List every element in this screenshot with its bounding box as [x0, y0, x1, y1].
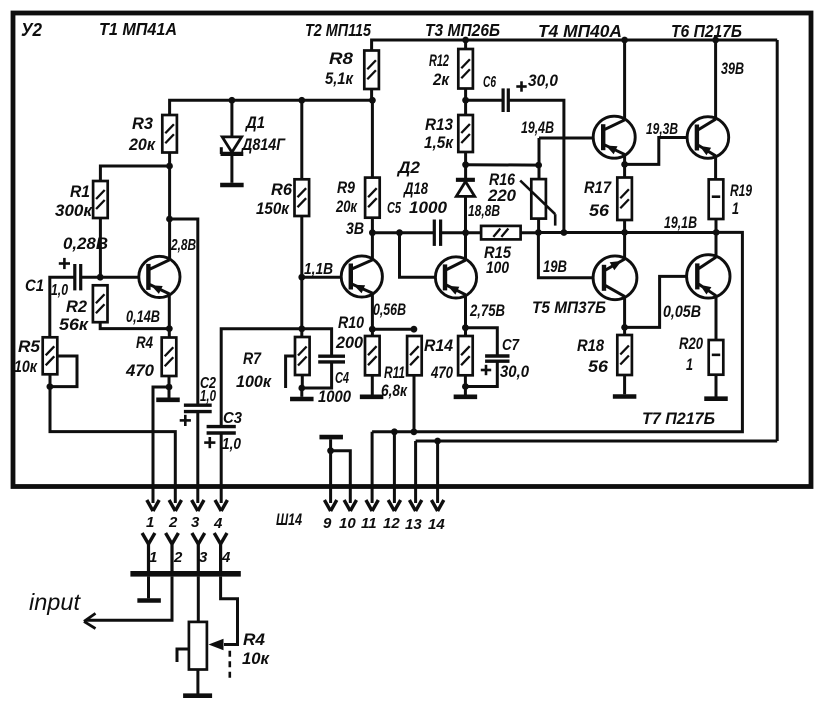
label R2 value 56к [59, 315, 89, 334]
label voltage 0,14В [126, 307, 160, 326]
svg-text:150к: 150к [256, 199, 290, 218]
wire: C4 top link [302, 329, 332, 356]
resistor R7 (trimmer) [295, 337, 310, 375]
svg-text:18,8В: 18,8В [468, 203, 500, 220]
wire: R16 bottom to rail [537, 219, 540, 233]
svg-text:19,4В: 19,4В [521, 118, 554, 137]
svg-text:Д814Г: Д814Г [240, 135, 286, 154]
label R4 [136, 333, 153, 352]
wire: R1 bottom to T1 base node [99, 218, 102, 277]
node: T3 emitter junction [462, 324, 469, 331]
label voltage 19В [543, 257, 567, 276]
label T7 type [642, 409, 715, 428]
wire: R5 wiper link [50, 356, 77, 387]
ground above pins 9-10 [319, 435, 343, 440]
wire: R20 bottom [715, 375, 718, 397]
label voltage 18,8В [468, 203, 500, 220]
wire: T3 emitter down [464, 296, 467, 336]
svg-text:4: 4 [221, 549, 231, 566]
svg-text:Т1 МП41А: Т1 МП41А [99, 19, 177, 39]
wire: pin 11 from feedback line [371, 432, 374, 503]
wire: down to T3 base [400, 233, 436, 278]
label R8 value 5,1к [325, 69, 354, 88]
label C4 value 1000 [318, 387, 351, 406]
label T3 type [425, 20, 500, 40]
node: D1 top on bias rail [229, 97, 236, 104]
label C7 [502, 337, 520, 354]
svg-text:1: 1 [146, 514, 154, 531]
svg-text:10к: 10к [14, 357, 38, 376]
svg-text:Т7 П217Б: Т7 П217Б [642, 409, 715, 428]
svg-text:56к: 56к [59, 315, 89, 334]
label R6 [271, 180, 293, 199]
svg-text:1: 1 [732, 199, 739, 218]
label voltage 19,1В [664, 213, 697, 232]
resistor R14 [458, 336, 473, 375]
svg-text:R9: R9 [337, 178, 355, 197]
wire: R10 bottom [371, 375, 374, 394]
svg-text:1: 1 [686, 355, 693, 374]
wire: R7 wiper link [286, 356, 294, 388]
node: C3 junction [298, 325, 305, 332]
svg-text:С4: С4 [335, 370, 349, 387]
node: R6 top on bias rail [298, 97, 305, 104]
wire: output rail to T7 node [538, 231, 716, 234]
resistor R18 [617, 335, 632, 375]
svg-text:Т6 П217Б: Т6 П217Б [671, 21, 742, 41]
wire: output node to feedback line [372, 232, 742, 431]
label R8 [329, 49, 354, 68]
svg-text:11: 11 [361, 515, 377, 532]
wire: D1 top lead [230, 100, 233, 137]
socket contact 3 [192, 533, 205, 572]
svg-text:R18: R18 [577, 336, 604, 355]
label R4 value 10к [242, 649, 270, 668]
wire: R1 top to collector line [100, 166, 169, 181]
wire: R5 bottom to pin 2 run [50, 374, 175, 503]
capacitor C7 [485, 356, 509, 361]
svg-text:Т3 МП26Б: Т3 МП26Б [425, 20, 500, 40]
wire: R11 bottom to feedback line [413, 375, 416, 432]
label voltage 19,4В [521, 118, 554, 137]
wire: R12 to R13 [464, 89, 467, 116]
svg-text:20к: 20к [128, 135, 156, 154]
wire: R8 bottom to rail [370, 89, 373, 100]
svg-text:Т5 МП37Б: Т5 МП37Б [532, 298, 606, 317]
ground under D1 [220, 183, 244, 188]
label pin 10 [339, 515, 356, 532]
node: T2 emitter junction [369, 326, 376, 333]
label C1 value 1,0 [51, 282, 68, 299]
resistor R12 [458, 49, 473, 89]
label R10 value 200 [335, 333, 363, 352]
resistor R17 [617, 178, 632, 221]
node: R11 on feedback line [411, 428, 418, 435]
label T5 type [532, 298, 606, 317]
label voltage 2,8В [170, 237, 196, 254]
label connector Ш14 [276, 510, 302, 529]
label C7 plus [481, 365, 491, 375]
wire: C5 right plate to Д2 column [441, 231, 482, 234]
label R5 [18, 337, 41, 356]
label R2 [66, 297, 88, 316]
wire: R6 bottom down to R7 [300, 216, 303, 337]
svg-text:2к: 2к [432, 70, 450, 89]
label Д1 type Д814Г [240, 135, 286, 154]
svg-text:30,0: 30,0 [500, 362, 529, 381]
wire: T6 collector [714, 40, 717, 118]
node: T2 base tap [298, 274, 305, 281]
label R12 [429, 51, 449, 70]
socket contact 1 [142, 533, 155, 572]
label R12 value 2к [432, 70, 450, 89]
wire: T6 base link [625, 138, 688, 165]
svg-text:R12: R12 [429, 51, 449, 70]
label C1 plus [59, 258, 70, 269]
wire: T6 emitter to R19 [714, 157, 717, 179]
label R7 value 100к [236, 372, 272, 391]
label voltage 19,3В [646, 121, 678, 138]
potentiometer R4 (volume) [189, 622, 207, 670]
svg-text:14: 14 [428, 516, 445, 533]
wire: branch to pin 10 [331, 451, 351, 503]
transistor T1 [139, 256, 180, 297]
label R15 [484, 243, 511, 262]
transistor T6 [687, 117, 729, 159]
wire: C1 left plate to R5 top [50, 277, 75, 337]
label Д2 type Д18 [402, 179, 428, 198]
svg-text:3В: 3В [346, 219, 364, 238]
wire: R19 bottom to output node [715, 219, 718, 232]
node: driver node on rail [535, 229, 542, 236]
node: R1 tap on T1 collector line [166, 163, 173, 170]
wire: right-side vertical drop of +39V rail to supply line [776, 40, 779, 441]
svg-text:5,1к: 5,1к [325, 69, 354, 88]
svg-text:С7: С7 [502, 337, 520, 354]
svg-text:Ш14: Ш14 [276, 510, 302, 529]
label Д2 [396, 158, 421, 177]
svg-text:R6: R6 [271, 180, 293, 199]
wire: T7 emitter to R20 [715, 297, 718, 340]
label R15 value 100 [486, 258, 509, 277]
svg-text:R7: R7 [243, 349, 262, 368]
node: T6 collector on +39V rail [712, 37, 719, 44]
label voltage 1,1В [304, 261, 333, 278]
wire: T7 base link [625, 276, 687, 327]
wire: pin 14 drop [436, 441, 439, 503]
svg-text:470: 470 [430, 363, 453, 382]
label R6 value 150к [256, 199, 290, 218]
svg-text:R4: R4 [243, 630, 266, 649]
resistor R3 [162, 115, 177, 153]
wire: C6 left lead [466, 99, 504, 102]
node: T5/T7 base node [621, 324, 628, 331]
label socket 2 [173, 549, 183, 566]
svg-text:56: 56 [589, 201, 610, 220]
ground under R7 [290, 397, 314, 402]
svg-text:R10: R10 [338, 313, 364, 332]
transistor T7 [687, 255, 730, 298]
svg-text:Д18: Д18 [402, 179, 428, 198]
wire: socket 1 to ground [147, 577, 150, 599]
ground under R10 [360, 394, 384, 399]
resistor R4 [162, 338, 177, 377]
label pin 3 [191, 514, 200, 531]
node: pin 12 tap on feedback line [391, 428, 398, 435]
node: T4 collector on +39V rail [621, 37, 628, 44]
label R20 [679, 334, 703, 353]
arrow pin 10 [344, 500, 356, 511]
label C4 [335, 370, 349, 387]
label C7 value 30,0 [500, 362, 529, 381]
node: R7 bottom junction [298, 385, 305, 392]
pot wiper arrow [209, 639, 224, 650]
wire: C2 bottom to pin 3 [196, 412, 199, 503]
wire: ground stub [300, 388, 303, 397]
wire: T1 emitter down to R4 [168, 295, 171, 338]
svg-text:0,28В: 0,28В [63, 234, 108, 253]
label C5 value 1000 [409, 198, 448, 217]
label pin 1 [146, 514, 154, 531]
label C2 plus [180, 415, 191, 426]
node: R16 link junction [462, 161, 469, 168]
label R17 value 56 [589, 201, 610, 220]
wire: R17 bottom to rail [623, 220, 626, 232]
label C1 [25, 276, 44, 295]
wire: pin 1 of Ш14 [147, 500, 159, 511]
label input [29, 589, 82, 615]
wire: R3 bottom to T1 collector [168, 153, 171, 259]
label C3 plus [204, 437, 215, 448]
ground under R4 [156, 397, 180, 402]
node: T1 emitter junction [166, 325, 173, 332]
svg-text:input: input [29, 589, 82, 615]
label C6 plus [516, 81, 526, 91]
svg-text:0,56В: 0,56В [373, 300, 406, 319]
label voltage 3В [346, 219, 364, 238]
node: R8/R9 junction on bias rail [369, 97, 376, 104]
label R17 [584, 178, 612, 197]
label C3 [223, 410, 242, 427]
svg-text:56: 56 [588, 357, 609, 376]
node: C6 tap [462, 97, 469, 104]
svg-text:R2: R2 [66, 297, 88, 316]
label R13 value 1,5к [424, 133, 454, 152]
svg-text:1,0: 1,0 [200, 388, 216, 405]
svg-text:R20: R20 [679, 334, 703, 353]
svg-text:1000: 1000 [409, 198, 448, 217]
svg-text:Т2 МП115: Т2 МП115 [305, 20, 371, 40]
wire: R13 bottom to diode [464, 152, 467, 178]
resistor R13 [458, 115, 473, 152]
label R20 value 1 [686, 355, 693, 374]
transistor T5 (NPN) [593, 256, 637, 300]
label R7 [243, 349, 262, 368]
node: R4 bottom junction [166, 384, 173, 391]
node: T3 base tap [396, 229, 403, 236]
capacitor C4 [318, 356, 345, 362]
wire: R2 bottom to T1 emitter [100, 322, 169, 328]
svg-text:2: 2 [173, 549, 183, 566]
wire: T5 collector from rail [623, 232, 626, 258]
svg-text:1,0: 1,0 [222, 436, 241, 453]
svg-text:10: 10 [339, 515, 356, 532]
label R16 [489, 170, 515, 189]
node: T1 base node [97, 274, 104, 281]
wire: R14 bottom [464, 375, 467, 394]
svg-text:2: 2 [168, 514, 178, 531]
svg-text:19,3В: 19,3В [646, 121, 678, 138]
wire: R9 bottom to T2 collector [371, 218, 374, 259]
wire: C3 bottom to pin 4 [220, 433, 223, 503]
svg-text:Д1: Д1 [244, 113, 265, 132]
svg-text:30,0: 30,0 [528, 71, 558, 90]
wire: pin 12 drop [393, 432, 396, 503]
label R16 value 220 [487, 186, 517, 205]
capacitor C3 [207, 427, 236, 433]
svg-text:R8: R8 [329, 49, 354, 68]
wire: pin 3 of Ш14 [192, 500, 204, 511]
svg-text:39В: 39В [721, 59, 744, 78]
svg-text:R1: R1 [70, 182, 90, 201]
arrow pin 12 [388, 500, 400, 511]
transistor T4 [593, 116, 635, 158]
ground under R20 [704, 396, 728, 401]
svg-text:9: 9 [323, 515, 332, 532]
capacitor C6 [503, 88, 508, 112]
svg-text:1: 1 [149, 549, 157, 566]
svg-text:470: 470 [125, 361, 155, 380]
socket contact 4 [214, 533, 227, 572]
resistor R15 [481, 226, 520, 240]
capacitor C1 [75, 264, 81, 290]
svg-text:220: 220 [487, 186, 517, 205]
wire: rail to R9 [371, 100, 374, 177]
label C3 value 1,0 [222, 436, 241, 453]
resistor R10 [365, 336, 380, 375]
wire: R7 bottom [301, 375, 304, 388]
label C6 [483, 74, 496, 91]
svg-text:R4: R4 [136, 333, 153, 352]
svg-text:0,05В: 0,05В [663, 302, 701, 321]
capacitor C5 [434, 220, 440, 246]
wire: bias rail from R3 top to R8 bottom [170, 100, 373, 115]
label socket 1 [149, 549, 157, 566]
label R1 value 300к [55, 201, 93, 220]
svg-text:300к: 300к [55, 201, 93, 220]
label R14 value 470 [430, 363, 453, 382]
wire: branch to pin 1 [153, 387, 169, 503]
wire: socket 4 to pot wiper [221, 577, 238, 645]
label T4 type [538, 21, 622, 41]
wire: emitter junction to R11 top [372, 328, 414, 331]
label pin 11 [361, 515, 377, 532]
label voltage 0,56В [373, 300, 406, 319]
label R9 value 20к [335, 197, 358, 216]
label R5 value 10к [14, 357, 38, 376]
resistor R2 [93, 285, 108, 322]
wire: R12 top [464, 40, 467, 49]
svg-text:У2: У2 [21, 20, 42, 40]
label R18 [577, 336, 604, 355]
wire: T2 collector to C5 and T3 base [372, 231, 434, 234]
wire: R6 top lead [300, 100, 303, 179]
label unit У2 [21, 20, 42, 40]
resistor R5 (trimmer) [43, 337, 58, 374]
svg-text:4: 4 [213, 515, 223, 532]
wire: C4 bottom link [302, 362, 332, 388]
wire: ground stub [168, 387, 171, 398]
node: T4 emitter / T6 base node [621, 161, 628, 168]
svg-text:R19: R19 [730, 181, 752, 200]
svg-text:13: 13 [405, 516, 422, 533]
label R3 [132, 114, 154, 133]
label R4 value 470 [125, 361, 155, 380]
wire: Д2 to T3 collector [464, 196, 467, 259]
enclosure border (unit U2 box) [13, 13, 811, 487]
arrow pin 13 [409, 500, 421, 511]
wire: socket 2 to input line [86, 577, 172, 621]
wire: C3 top lead to T2 base column [221, 329, 302, 427]
resistor R20 [709, 340, 724, 375]
wire: collector tap across to C2 column [170, 219, 198, 405]
resistor R11 [407, 336, 422, 375]
svg-text:19,1В: 19,1В [664, 213, 697, 232]
svg-text:Т4 МП40А: Т4 МП40А [538, 21, 622, 41]
transistor T2 [341, 256, 382, 297]
wire: R16 junction link to Д2 column [466, 163, 539, 166]
label R19 [730, 181, 752, 200]
node: collector output tap [166, 216, 173, 223]
svg-text:1,5к: 1,5к [424, 133, 454, 152]
node: C6 on output rail [561, 229, 568, 236]
label pin 9 [323, 515, 332, 532]
ground under R14 [454, 394, 478, 399]
svg-text:R13: R13 [425, 115, 453, 134]
wire: R15 to driver node [521, 231, 539, 234]
label pin 2 [168, 514, 178, 531]
node: R19/T7 output node [713, 229, 720, 236]
label C5 [387, 200, 401, 217]
svg-text:3: 3 [191, 514, 200, 531]
wire: +39V top rail from R8 to right side drop [372, 40, 778, 51]
connector body bus bar [130, 571, 240, 577]
wire: T4 base bend down to R16 [538, 138, 541, 179]
wire: T1 base node to base [100, 276, 139, 279]
socket contact 2 [166, 533, 179, 572]
label C6 value 30,0 [528, 71, 558, 90]
label T6 type [671, 21, 742, 41]
wire: pin 2 of Ш14 [169, 500, 181, 511]
wire: C7 top link [465, 328, 497, 356]
label R13 [425, 115, 453, 134]
label R18 value 56 [588, 357, 609, 376]
node: R16 top junction [535, 162, 542, 169]
wire: driver node down to T5 base [538, 233, 593, 278]
svg-text:200: 200 [335, 333, 363, 352]
svg-text:Д2: Д2 [396, 158, 421, 177]
label T2 type [305, 20, 371, 40]
node: Д2 bottom junction [462, 229, 469, 236]
svg-text:R3: R3 [132, 114, 154, 133]
label pin 4 [213, 515, 223, 532]
wire: C6 right lead down to output rail [508, 100, 564, 232]
wire: socket 3 to pot R4 [197, 577, 200, 622]
wire: D1 bottom lead [230, 156, 233, 183]
svg-text:2,8В: 2,8В [170, 237, 196, 254]
wire: pot bottom to ground [196, 670, 199, 694]
arrow pin 9 [324, 500, 336, 511]
